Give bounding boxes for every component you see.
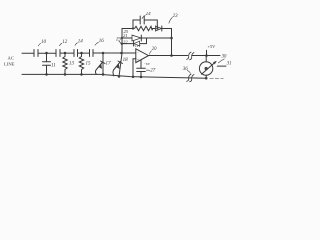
capacitor C14 xyxy=(74,50,78,57)
svg-text:11: 11 xyxy=(51,64,56,69)
capacitor C11 shunt xyxy=(43,53,51,74)
wire output rail xyxy=(149,55,221,57)
node junction D bottom xyxy=(102,73,105,76)
wire break arcs bottom xyxy=(187,74,194,82)
svg-text:18: 18 xyxy=(123,58,129,63)
diode D17 slant xyxy=(95,61,105,74)
diode D18 slant xyxy=(113,61,123,76)
node junction E xyxy=(120,52,123,55)
wire +5V stub xyxy=(206,50,208,55)
label 20 xyxy=(149,47,157,54)
op-amp U20 xyxy=(136,49,149,63)
capacitor C24 branch xyxy=(133,16,157,29)
svg-text:−6V: −6V xyxy=(144,62,151,66)
label 10 xyxy=(38,40,46,46)
svg-text:17: 17 xyxy=(106,62,112,67)
node AC input label xyxy=(4,56,15,67)
lamp DS33 xyxy=(199,62,212,75)
svg-text:30: 30 xyxy=(222,54,227,59)
node junction A xyxy=(45,52,48,55)
svg-text:20: 20 xyxy=(152,47,157,52)
node junction E bottom xyxy=(118,75,121,78)
node output junction xyxy=(205,54,208,57)
svg-text:15: 15 xyxy=(86,61,92,66)
svg-text:10: 10 xyxy=(41,40,47,45)
label 27 xyxy=(146,68,155,73)
node junction C bottom xyxy=(80,73,83,76)
svg-text:13: 13 xyxy=(69,61,75,66)
label 36 xyxy=(183,67,191,73)
node junction D xyxy=(102,52,105,55)
svg-text:16: 16 xyxy=(99,39,105,44)
svg-text:−: − xyxy=(137,51,139,55)
capacitor C10 xyxy=(34,50,38,57)
wire break arcs top xyxy=(187,52,194,60)
svg-text:31: 31 xyxy=(227,62,232,67)
svg-text:+: + xyxy=(137,58,139,62)
resistor R15 xyxy=(79,53,83,74)
wire bottom rail xyxy=(22,74,207,78)
svg-text:23: 23 xyxy=(173,14,179,19)
svg-text:12: 12 xyxy=(62,40,67,45)
output contact 31 xyxy=(217,65,226,67)
label 14 xyxy=(75,39,83,45)
wire op-amp plus input to ground xyxy=(133,59,136,77)
svg-text:LINE: LINE xyxy=(4,62,15,67)
label 16 xyxy=(95,39,104,45)
svg-text:27: 27 xyxy=(150,68,156,73)
svg-text:36: 36 xyxy=(183,67,189,72)
output arrow 30 xyxy=(202,62,216,74)
node junction B bottom xyxy=(64,73,67,76)
svg-text:24: 24 xyxy=(146,12,152,17)
capacitor C16 xyxy=(90,50,94,57)
svg-text:AC: AC xyxy=(8,56,14,61)
wire feedback right column xyxy=(171,29,173,56)
wire shunt D xyxy=(102,53,104,74)
label 24 xyxy=(142,12,151,18)
wire input column xyxy=(119,29,122,77)
capacitor C12 xyxy=(56,50,60,57)
svg-text:22: 22 xyxy=(123,39,128,44)
resistor R13 xyxy=(63,53,67,74)
diode D23 xyxy=(156,26,162,31)
resistor R25 xyxy=(135,26,153,30)
label 19 xyxy=(116,37,122,44)
svg-text:21: 21 xyxy=(123,33,128,38)
capacitor C27 bypass xyxy=(137,60,146,77)
diode D22 clamp xyxy=(122,38,147,46)
node junction B xyxy=(64,52,67,55)
label 23 xyxy=(169,14,178,23)
svg-text:+5V: +5V xyxy=(208,44,217,49)
wire bottom rail dashed continuation xyxy=(210,77,224,79)
node junction C xyxy=(80,52,83,55)
svg-text:14: 14 xyxy=(78,39,84,44)
feedback loop top run xyxy=(122,28,172,30)
wire top rail left xyxy=(22,52,136,54)
label 12 xyxy=(59,40,67,46)
svg-text:19: 19 xyxy=(116,37,122,42)
node junction A bottom xyxy=(45,73,48,76)
diode D21 clamp xyxy=(122,35,172,41)
svg-text:+12V: +12V xyxy=(133,44,141,48)
